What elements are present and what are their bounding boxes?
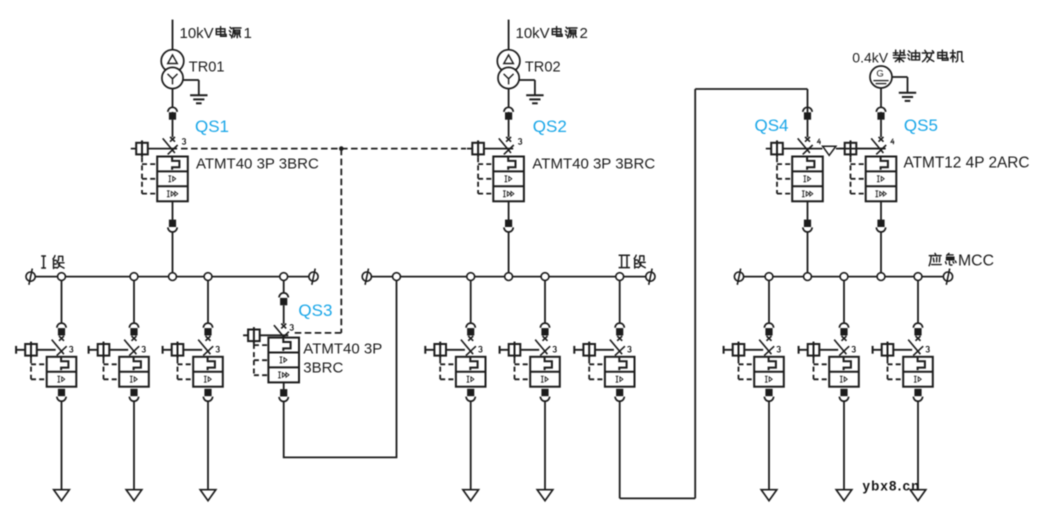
svg-text:QS3: QS3 — [298, 301, 332, 320]
svg-text:0.4kV: 0.4kV — [852, 49, 888, 65]
svg-text:ATMT12 4P 2ARC: ATMT12 4P 2ARC — [904, 154, 1030, 171]
svg-text:ATMT40 3P 3BRC: ATMT40 3P 3BRC — [532, 155, 655, 172]
svg-text:10kV: 10kV — [180, 25, 214, 42]
svg-text:3BRC: 3BRC — [303, 359, 343, 376]
svg-text:1: 1 — [244, 25, 252, 42]
svg-text:ATMT40 3P: ATMT40 3P — [303, 340, 382, 357]
svg-text:QS1: QS1 — [195, 117, 229, 136]
svg-text:QS2: QS2 — [533, 117, 567, 136]
svg-text:2: 2 — [580, 25, 588, 42]
svg-text:TR01: TR01 — [189, 60, 225, 76]
svg-text:10kV: 10kV — [516, 25, 550, 42]
svg-text:TR02: TR02 — [525, 60, 561, 76]
svg-text:ybx8.cn: ybx8.cn — [863, 478, 921, 493]
svg-text:ATMT40 3P 3BRC: ATMT40 3P 3BRC — [196, 155, 319, 172]
svg-text:QS4: QS4 — [755, 116, 789, 135]
svg-text:QS5: QS5 — [904, 116, 938, 135]
svg-text:G: G — [876, 68, 883, 79]
svg-text:MCC: MCC — [958, 253, 994, 270]
